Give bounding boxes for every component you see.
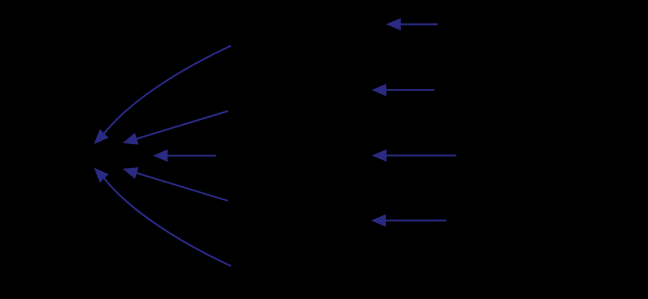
arrowhead 4 — [123, 167, 139, 179]
arrowhead 5 — [94, 168, 109, 183]
arrowhead 1 — [94, 129, 109, 144]
wire curved arrow 5 shaft (middle bottom item to left node) — [104, 178, 231, 266]
wire arrow R3 shaft — [386, 155, 456, 157]
wire arrow R4 shaft (right column bottom) — [386, 220, 447, 222]
arrowhead 2 — [123, 133, 139, 145]
wire curved arrow 1 shaft (middle top item to left node) — [104, 46, 231, 134]
arrowhead R4 — [371, 214, 386, 226]
wire arrow 4 shaft (lower diagonal) — [137, 173, 229, 201]
arrowhead R1 — [386, 18, 401, 30]
arrowhead R2 — [372, 84, 387, 96]
wire arrow R2 shaft — [386, 89, 434, 91]
wire arrow 3 shaft (horizontal middle) — [167, 155, 216, 157]
arrowhead R3 — [372, 149, 387, 161]
wire arrow 2 shaft (upper diagonal) — [137, 111, 229, 139]
arrowhead 3 — [153, 149, 168, 161]
wire arrow R1 shaft (right column top) — [401, 23, 438, 25]
